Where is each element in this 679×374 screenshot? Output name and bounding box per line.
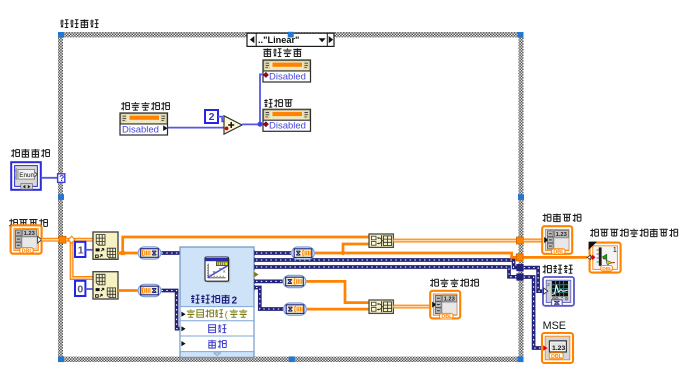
MSE input red arrow bbox=[543, 345, 547, 350]
svg-text:DBL: DBL bbox=[551, 354, 563, 360]
enum control 拟合模型 (fit model) bbox=[11, 149, 49, 157]
add function node bbox=[224, 116, 242, 134]
array control 原始数据 (raw data) bbox=[9, 219, 47, 227]
index array node (bottom) bbox=[93, 272, 118, 299]
svg-text:DBL: DBL bbox=[22, 248, 34, 254]
express VI output arrows bbox=[254, 250, 258, 255]
numeric constant 1 bbox=[75, 242, 85, 257]
svg-text:Disabled: Disabled bbox=[122, 124, 159, 135]
dd wire: long B (MSE) bbox=[256, 267, 517, 277]
svg-text:DBL: DBL bbox=[602, 266, 612, 272]
XY graph input: white arrow + red coercion dot bbox=[587, 255, 591, 259]
svg-text:Disabled: Disabled bbox=[269, 71, 306, 82]
convert to dynamic data node 1 bbox=[138, 247, 161, 259]
XY graph indicator 原始数据和拟合数据 bbox=[590, 229, 677, 237]
svg-text:(: ( bbox=[225, 309, 228, 319]
wire: constant 2 to add node bbox=[218, 117, 224, 122]
build array node 1 bbox=[369, 234, 393, 247]
wire: bottom index out to convert bbox=[118, 289, 138, 292]
graph indicator 残差图 (residual plot) bbox=[543, 265, 573, 274]
wire: 0 to index bbox=[85, 288, 93, 290]
convert from dynamic data B bbox=[283, 275, 306, 287]
svg-text:1: 1 bbox=[78, 245, 84, 257]
wire: add output to rings (junction) bbox=[242, 74, 263, 124]
index array node (top) bbox=[93, 232, 118, 259]
wire: top index out to convert + long branch up bbox=[118, 237, 369, 253]
dynamic data wire to express VI (signal) bbox=[162, 251, 181, 255]
dynamic data wire to express VI (position) bbox=[162, 291, 181, 329]
svg-text:?: ? bbox=[59, 174, 64, 183]
wire: conv B out to build array 2 bbox=[307, 281, 370, 302]
svg-text:MSE: MSE bbox=[543, 320, 566, 332]
numeric constant 2 bbox=[205, 110, 218, 123]
dd wire: long A (residual) bbox=[256, 260, 517, 268]
indicator 截距和斜率 (intercept and slope) bbox=[430, 279, 478, 287]
case structure border frame bbox=[58, 32, 524, 362]
wire: 1 to index bbox=[85, 249, 93, 251]
dd wire: out1 to convert A bbox=[256, 251, 291, 255]
svg-text:2: 2 bbox=[547, 282, 550, 287]
wire: 原始数据 to border tunnel (2D array) bbox=[42, 238, 59, 242]
numeric constant 0 bbox=[75, 281, 85, 296]
dd wire: out to convert C bbox=[256, 288, 283, 310]
wire: tunnel to MSE bbox=[524, 277, 544, 348]
wire: tunnel to 拟合数据 bbox=[523, 239, 544, 243]
wire: conv C out to build array 2 bbox=[307, 308, 369, 311]
express VI 曲线拟合2 (curve fitting) bbox=[180, 247, 254, 357]
express VI row 信号 bbox=[181, 341, 185, 346]
ring constant 截距和斜率 (intercept and slope) bbox=[121, 102, 169, 110]
express VI row 位置 bbox=[181, 326, 185, 331]
convert from dynamic data A bbox=[292, 247, 315, 259]
selection handles (blue) bbox=[58, 32, 524, 362]
convert to dynamic data node 2 bbox=[138, 284, 161, 296]
wire: tunnel to index array nodes bbox=[66, 238, 94, 242]
wire junction dot bbox=[258, 122, 263, 127]
svg-text:Disabled: Disabled bbox=[269, 121, 306, 132]
build array node 2 bbox=[369, 300, 393, 313]
label: case structure 条件结构 bbox=[60, 19, 98, 27]
dd wire: out to convert B bbox=[256, 280, 283, 284]
wire: conv A out to XY graph (via tunnel) bbox=[315, 244, 517, 257]
svg-text:Enum: Enum bbox=[19, 172, 36, 179]
svg-text:2: 2 bbox=[209, 111, 215, 123]
ring constant 样条插值 (spline interpolation) bbox=[263, 48, 301, 56]
indicator 拟合数据 (fitted data) bbox=[543, 214, 581, 222]
svg-text:1.23: 1.23 bbox=[552, 345, 565, 352]
svg-text:2: 2 bbox=[232, 295, 238, 306]
ring constant 项系数 (term coefficients) bbox=[264, 99, 292, 107]
svg-text:0: 0 bbox=[77, 284, 83, 296]
wire: ring Disabled to add node bbox=[168, 127, 224, 129]
convert from dynamic data C bbox=[284, 303, 307, 315]
残差图 input hollow arrow bbox=[544, 288, 548, 294]
wire: build1 out to tunnel (2D) bbox=[393, 239, 516, 243]
wire: tunnel to XY graph bbox=[523, 256, 587, 259]
tunnels on right border bbox=[516, 237, 523, 244]
wire junction (diamond) bbox=[68, 236, 75, 243]
tunnel (orange) on left border bbox=[59, 236, 66, 243]
wire: enum to case selector tunnel bbox=[41, 177, 58, 179]
case selector label .."Linear" bbox=[247, 33, 334, 46]
express VI title bbox=[191, 295, 230, 304]
wire: tunnel to 残差图 bbox=[524, 268, 544, 292]
svg-text:1.23: 1.23 bbox=[24, 231, 36, 237]
express VI row 错误输入 (无错 bbox=[181, 312, 185, 317]
wire: build2 out to 截距和斜率 (2D) bbox=[393, 305, 431, 309]
svg-text:1: 1 bbox=[613, 245, 617, 254]
case selector tunnel ? bbox=[58, 174, 65, 183]
express VI icon bbox=[205, 257, 230, 283]
